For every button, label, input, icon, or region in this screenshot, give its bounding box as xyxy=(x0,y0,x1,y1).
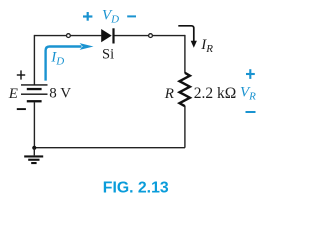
wire bottom horizontal xyxy=(34,147,185,149)
wire right vertical upper xyxy=(184,35,186,73)
wire right vertical lower xyxy=(184,106,186,148)
label + (battery) xyxy=(17,70,25,79)
label + (V_R, blue) xyxy=(246,69,255,79)
svg-text:E: E xyxy=(8,86,18,102)
svg-text:VR: VR xyxy=(240,85,256,103)
svg-text:VD: VD xyxy=(102,8,119,26)
svg-text:Si: Si xyxy=(102,46,114,62)
ground xyxy=(24,148,43,164)
wire left vertical upper xyxy=(33,35,35,85)
node open terminal left xyxy=(67,34,71,38)
label + (V_D, blue) xyxy=(83,12,92,21)
battery E plates xyxy=(21,85,48,103)
label minus (V_D, blue) xyxy=(127,15,136,17)
svg-text:IR: IR xyxy=(200,37,213,55)
wire left vertical lower xyxy=(33,102,35,148)
node open terminal right xyxy=(149,34,153,38)
svg-text:FIG. 2.13: FIG. 2.13 xyxy=(103,179,169,196)
junction dot xyxy=(32,146,36,150)
label minus (battery) xyxy=(17,108,26,110)
svg-text:R: R xyxy=(164,86,174,102)
svg-text:ID: ID xyxy=(50,50,64,68)
current arrow I_D (blue) xyxy=(46,43,94,81)
wire top-right horizontal xyxy=(115,35,186,37)
diode D (Si) xyxy=(101,28,114,43)
wire top-left horizontal xyxy=(34,35,101,37)
current arrow I_R (black) xyxy=(178,26,197,48)
svg-text:2.2 kΩ: 2.2 kΩ xyxy=(194,85,237,102)
label minus (V_R, blue) xyxy=(246,111,256,113)
svg-text:8 V: 8 V xyxy=(49,86,71,102)
resistor R zigzag xyxy=(180,73,190,106)
